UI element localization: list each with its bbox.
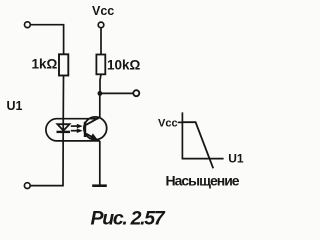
svg-text:Насыщение: Насыщение: [166, 173, 240, 189]
svg-text:U1: U1: [228, 152, 244, 166]
svg-text:Рис. 2.57: Рис. 2.57: [91, 208, 166, 230]
svg-text:1kΩ: 1kΩ: [32, 57, 58, 72]
svg-text:Vcc: Vcc: [92, 4, 114, 18]
svg-text:10kΩ: 10kΩ: [107, 58, 141, 73]
svg-text:U1: U1: [7, 99, 23, 113]
svg-text:Vcc: Vcc: [158, 118, 178, 130]
